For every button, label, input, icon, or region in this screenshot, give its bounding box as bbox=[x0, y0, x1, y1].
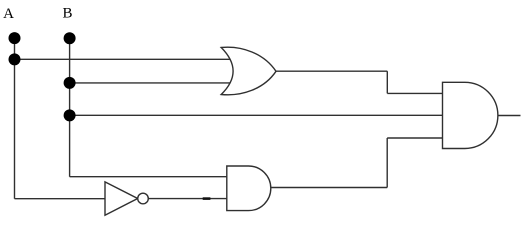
wire B to AND middle input bbox=[70, 114, 443, 116]
and-gate U3 (small) bbox=[227, 166, 271, 211]
not-gate U4 triangle bbox=[105, 182, 138, 215]
wire B to OR bottom input bbox=[70, 82, 233, 84]
svg-text:B: B bbox=[62, 6, 72, 22]
wire to AND bottom input bbox=[387, 137, 443, 139]
dash mark on NOT output wire bbox=[203, 197, 211, 200]
junction dot B-row3 bbox=[64, 109, 76, 121]
wire NOT output to small AND bottom input bbox=[148, 198, 230, 200]
or-gate U1 bbox=[221, 47, 276, 95]
not-gate U4 bubble bbox=[138, 193, 149, 204]
wire final output bbox=[498, 115, 521, 117]
wire to AND top input bbox=[387, 92, 443, 94]
wire vertical drop to AND top input bbox=[386, 71, 388, 93]
junction dot B-row2 bbox=[64, 77, 76, 89]
terminal dot A bbox=[9, 32, 21, 44]
wire A to OR top input bbox=[15, 58, 234, 60]
and-gate U2 (3-input output gate) bbox=[443, 82, 498, 148]
wire A vertical bbox=[14, 38, 16, 199]
junction dot A-row1 bbox=[9, 53, 21, 65]
wire B vertical bbox=[69, 38, 71, 176]
svg-text:A: A bbox=[3, 6, 14, 22]
wire vertical rise to AND bottom input bbox=[386, 138, 388, 188]
wire A bottom to NOT input bbox=[15, 198, 109, 200]
wire B bottom to small AND top input bbox=[70, 176, 229, 178]
wire OR output horizontal bbox=[276, 70, 387, 72]
wire small AND output horizontal bbox=[271, 187, 387, 189]
terminal dot B bbox=[64, 32, 76, 44]
